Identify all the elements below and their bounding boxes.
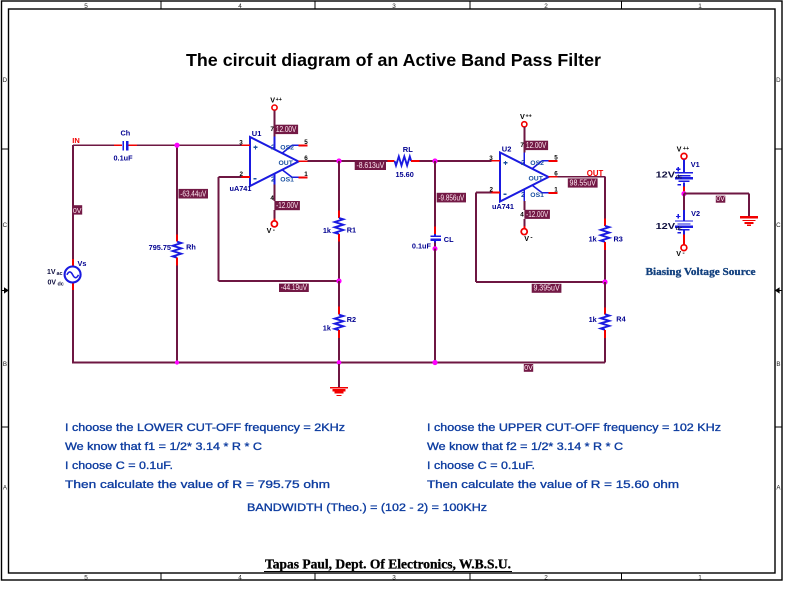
bias label -12.00V at U2 pin4 bbox=[524, 210, 550, 219]
op-amp U2 (second stage low-pass) bbox=[500, 153, 549, 202]
wire: bias mid node to ground bbox=[684, 193, 749, 216]
pin name OS1 of U2 bbox=[521, 190, 544, 199]
svg-text:V: V bbox=[677, 145, 682, 154]
pin 2 stub of U1 bbox=[239, 171, 250, 178]
pin 5 OS2 stub of U2 bbox=[532, 155, 558, 169]
svg-text:U1: U1 bbox=[252, 129, 262, 138]
svg-text:OS2: OS2 bbox=[280, 144, 294, 151]
svg-text:R1: R1 bbox=[347, 225, 356, 234]
svg-text:The circuit diagram of an Acti: The circuit diagram of an Active Band Pa… bbox=[186, 50, 601, 70]
svg-text:CL: CL bbox=[444, 235, 454, 244]
svg-text:++: ++ bbox=[276, 97, 282, 103]
svg-text:9.395uV: 9.395uV bbox=[533, 284, 560, 293]
svg-text:3: 3 bbox=[489, 155, 493, 162]
junction node CL/bottom rail bbox=[432, 360, 437, 365]
svg-text:4: 4 bbox=[238, 575, 242, 582]
svg-text:dc: dc bbox=[676, 174, 684, 180]
svg-text:I choose C = 0.1uF.: I choose C = 0.1uF. bbox=[65, 460, 173, 472]
svg-text:12V: 12V bbox=[656, 222, 676, 231]
capacitor Ch (0.1uF) bbox=[114, 141, 137, 151]
junction node R2/ground rail bbox=[337, 360, 342, 365]
junction node R3/R4/feedback bbox=[602, 279, 607, 284]
svg-text:We know that f2 = 1/2* 3.14 *: We know that f2 = 1/2* 3.14 * R * C bbox=[427, 441, 623, 453]
svg-text:V: V bbox=[524, 234, 529, 243]
svg-text:12V: 12V bbox=[656, 170, 676, 179]
svg-text:-63.44uV: -63.44uV bbox=[180, 189, 207, 198]
svg-text:V: V bbox=[676, 249, 681, 258]
svg-text:R3: R3 bbox=[614, 235, 623, 244]
pin 6 OUT stub of U1 bbox=[299, 155, 309, 162]
pin 1 OS1 stub of U1 bbox=[282, 170, 308, 178]
op-amp U1 (first stage high-pass) bbox=[250, 137, 299, 186]
svg-text:I choose the UPPER CUT-OFF fre: I choose the UPPER CUT-OFF frequency = 1… bbox=[427, 422, 721, 434]
svg-text:1V: 1V bbox=[47, 269, 56, 276]
wire: CL bottom to ground rail bbox=[434, 249, 436, 363]
pin name OS1 of U1 bbox=[271, 175, 294, 184]
svg-text:-: - bbox=[530, 235, 532, 242]
wire: U2 output to OUT node and down to R3 bbox=[558, 177, 606, 219]
svg-text:0.1uF: 0.1uF bbox=[114, 154, 134, 163]
svg-text:1k: 1k bbox=[323, 323, 332, 332]
svg-text:1: 1 bbox=[304, 171, 308, 178]
wire: left rail down from IN to Vs bbox=[72, 145, 74, 259]
svg-text:-12.00V: -12.00V bbox=[276, 201, 299, 210]
junction node RL/CL bbox=[432, 158, 437, 163]
svg-text:-44.19uV: -44.19uV bbox=[281, 283, 308, 292]
resistor R3 (1k) bbox=[601, 219, 610, 282]
pin 1 OS1 stub of U2 bbox=[532, 185, 558, 193]
svg-text:C: C bbox=[776, 222, 781, 229]
pin name OS2 of U2 bbox=[521, 158, 544, 167]
svg-text:3: 3 bbox=[239, 139, 243, 146]
resistor Rh (795.75) bbox=[173, 234, 182, 265]
wire: U1 inverting feedback net (pin2 left-down-right to R1/R2 node) bbox=[219, 177, 340, 281]
svg-text:R2: R2 bbox=[347, 315, 356, 324]
pin name OS2 of U1 bbox=[271, 143, 294, 152]
svg-text:-12.00V: -12.00V bbox=[526, 210, 549, 219]
svg-text:3: 3 bbox=[392, 575, 396, 582]
svg-text:1k: 1k bbox=[589, 235, 598, 244]
svg-text:2: 2 bbox=[544, 3, 548, 10]
svg-text:B: B bbox=[3, 361, 7, 368]
power terminal V- of U1 bbox=[267, 221, 278, 235]
svg-text:-9.856uV: -9.856uV bbox=[438, 193, 464, 202]
battery V2 (12Vdc) bbox=[675, 194, 693, 245]
svg-text:1: 1 bbox=[698, 575, 702, 582]
wire: vertical from input junction down to Rh bbox=[176, 145, 178, 234]
value label 12Vdc (V2) bbox=[656, 222, 684, 232]
bias label 98.55uV bbox=[568, 178, 598, 187]
svg-text:-8.613uV: -8.613uV bbox=[356, 161, 384, 170]
wire: left rail from Vs down to bottom rail bbox=[72, 290, 74, 363]
junction node between V1 and V2 bbox=[681, 191, 686, 196]
svg-text:Rh: Rh bbox=[186, 242, 196, 251]
battery V1 (12Vdc) bbox=[675, 160, 693, 192]
svg-text:-: - bbox=[273, 227, 275, 234]
svg-text:Biasing Voltage Source: Biasing Voltage Source bbox=[646, 267, 756, 278]
resistor R4 (1k) bbox=[601, 282, 610, 363]
svg-text:0V: 0V bbox=[524, 365, 533, 372]
svg-text:U2: U2 bbox=[502, 145, 512, 154]
svg-text:98.55uV: 98.55uV bbox=[570, 179, 597, 188]
svg-text:5: 5 bbox=[554, 155, 558, 162]
power terminal V++ of bias source bbox=[677, 145, 690, 160]
bias label -44.19uV bbox=[279, 283, 309, 292]
wire: top input rail from IN to U1 pin3 bbox=[73, 144, 244, 146]
source Vs (1Vac/0Vdc sine source) bbox=[65, 259, 81, 290]
svg-text:I choose C = 0.1uF.: I choose C = 0.1uF. bbox=[427, 460, 535, 472]
svg-text:V: V bbox=[267, 226, 272, 235]
power terminal V++ of U1 bbox=[270, 96, 282, 111]
bias label 0V on bottom rail bbox=[524, 364, 533, 372]
svg-text:D: D bbox=[776, 77, 781, 84]
svg-text:5: 5 bbox=[84, 575, 88, 582]
resistor R2 (1k) bbox=[335, 281, 344, 363]
resistor R1 (1k) bbox=[335, 161, 344, 281]
junction node at input/Rh bbox=[174, 143, 179, 148]
ground symbol 0 (main) bbox=[330, 364, 348, 396]
power terminal V++ of U2 bbox=[520, 112, 532, 127]
pin 4 of U1 with blue pin wire bbox=[270, 174, 274, 203]
power terminal V- of bias source bbox=[676, 245, 686, 258]
svg-text:1: 1 bbox=[698, 3, 702, 10]
bias label 0V on left rail bbox=[72, 205, 82, 215]
svg-text:Tapas Paul, Dept. Of Electroni: Tapas Paul, Dept. Of Electronics, W.B.S.… bbox=[265, 557, 511, 572]
pin 7 of U1 with blue pin wire bbox=[270, 126, 274, 149]
svg-text:OS1: OS1 bbox=[280, 176, 294, 183]
svg-text:OUT: OUT bbox=[529, 176, 544, 183]
svg-text:0V: 0V bbox=[716, 196, 725, 203]
bias label -8.613uV bbox=[355, 161, 386, 170]
wire: bottom 0V rail bbox=[73, 362, 605, 364]
svg-text:2: 2 bbox=[544, 575, 548, 582]
svg-text:Ch: Ch bbox=[121, 129, 131, 138]
svg-text:-: - bbox=[682, 250, 684, 257]
junction node Rh/bottom rail bbox=[175, 360, 179, 364]
bias label 9.395uV bbox=[532, 284, 562, 293]
resistor RL (15.60) horizontal bbox=[388, 157, 420, 166]
svg-text:5: 5 bbox=[84, 3, 88, 10]
bias label -63.44uV bbox=[179, 189, 209, 199]
svg-text:1k: 1k bbox=[323, 226, 332, 235]
svg-text:0V: 0V bbox=[48, 280, 57, 287]
svg-text:IN: IN bbox=[72, 136, 80, 145]
svg-text:OUT: OUT bbox=[279, 160, 294, 167]
svg-text:We know that f1 = 1/2* 3.14 *: We know that f1 = 1/2* 3.14 * R * C bbox=[65, 441, 262, 453]
svg-text:0.1uF: 0.1uF bbox=[412, 241, 432, 250]
power terminal V- of U2 bbox=[521, 229, 532, 243]
svg-text:I choose the LOWER CUT-OFF fre: I choose the LOWER CUT-OFF frequency = 2… bbox=[65, 422, 345, 434]
svg-text:++: ++ bbox=[683, 146, 689, 152]
svg-text:12.00V: 12.00V bbox=[276, 125, 297, 134]
value label 1Vac bbox=[47, 269, 63, 277]
pin 4 of U2 with blue pin wire bbox=[520, 190, 524, 219]
svg-text:BANDWIDTH (Theo.) = (102 - 2): BANDWIDTH (Theo.) = (102 - 2) = 100KHz bbox=[247, 502, 487, 514]
svg-text:dc: dc bbox=[58, 282, 64, 288]
svg-text:++: ++ bbox=[525, 114, 531, 120]
svg-text:1k: 1k bbox=[589, 315, 598, 324]
svg-text:V: V bbox=[520, 112, 525, 121]
svg-text:V: V bbox=[270, 96, 275, 105]
junction node R1/R2/feedback bbox=[336, 278, 341, 283]
pin 2 stub of U2 bbox=[489, 187, 500, 194]
svg-text:Then calculate the value of R: Then calculate the value of R = 795.75 o… bbox=[65, 479, 330, 491]
svg-text:1: 1 bbox=[554, 187, 558, 194]
svg-text:7: 7 bbox=[270, 126, 274, 133]
pin 7 of U2 with blue pin wire bbox=[520, 142, 524, 165]
svg-text:B: B bbox=[776, 361, 780, 368]
bias label -12.00V at U1 pin4 bbox=[274, 201, 300, 210]
bias label -9.856uV bbox=[437, 193, 466, 203]
pin 3 stub of U2 bbox=[489, 155, 500, 162]
svg-text:5: 5 bbox=[304, 139, 308, 146]
svg-text:7: 7 bbox=[520, 142, 524, 149]
capacitor CL (0.1uF) bbox=[430, 161, 441, 249]
value label 12Vdc (V1) bbox=[656, 170, 684, 180]
junction node U1out/R1 bbox=[336, 158, 341, 163]
svg-text:R4: R4 bbox=[616, 314, 626, 323]
svg-text:4: 4 bbox=[520, 211, 524, 218]
value label 0Vdc bbox=[48, 280, 64, 288]
junction node at CL bottom pin bbox=[433, 246, 438, 251]
svg-text:795.75: 795.75 bbox=[149, 243, 171, 252]
svg-text:V1: V1 bbox=[691, 160, 700, 169]
svg-text:3: 3 bbox=[392, 3, 396, 10]
wire: U2 pin4 to V- terminal bbox=[523, 219, 525, 229]
wire: Rh bottom to ground rail bbox=[176, 265, 178, 362]
svg-text:uA741: uA741 bbox=[492, 202, 514, 211]
svg-text:C: C bbox=[3, 222, 8, 229]
bias label 0V (bias source) bbox=[716, 196, 726, 203]
wire: U1 pin4 to V- terminal bbox=[274, 210, 276, 220]
svg-text:dc: dc bbox=[676, 226, 684, 232]
bias label 12.00V at U1 pin7 bbox=[274, 125, 298, 134]
wire: U1 output to RL bbox=[308, 160, 388, 162]
wire: RL to U2 pin3 bbox=[419, 160, 491, 162]
svg-text:OS2: OS2 bbox=[530, 160, 544, 167]
pin 5 OS2 stub of U1 bbox=[282, 139, 308, 153]
svg-text:V2: V2 bbox=[691, 209, 700, 218]
svg-text:ac: ac bbox=[57, 271, 63, 277]
svg-text:0V: 0V bbox=[73, 208, 82, 215]
svg-text:12.00V: 12.00V bbox=[526, 141, 547, 150]
svg-text:uA741: uA741 bbox=[230, 184, 252, 193]
wire: V++ to U2 pin7 bbox=[523, 127, 525, 152]
svg-text:15.60: 15.60 bbox=[396, 170, 414, 179]
svg-text:Vs: Vs bbox=[78, 259, 87, 268]
svg-text:OS1: OS1 bbox=[530, 192, 544, 199]
footer author text bbox=[264, 557, 512, 572]
bias label 12.00V at U2 pin7 bbox=[524, 141, 548, 150]
pin 3 stub of U1 bbox=[239, 139, 250, 146]
svg-text:4: 4 bbox=[270, 195, 274, 202]
pin 6 OUT stub of U2 bbox=[549, 171, 559, 178]
svg-text:RL: RL bbox=[403, 145, 413, 154]
wire: U2 inverting feedback net (pin2 left-down-right to R3/R4 node) bbox=[476, 192, 605, 282]
svg-text:D: D bbox=[3, 77, 8, 84]
svg-text:4: 4 bbox=[238, 3, 242, 10]
wire: V++ to U1 pin7 bbox=[274, 110, 276, 136]
svg-text:Then calculate the value of R: Then calculate the value of R = 15.60 oh… bbox=[427, 479, 679, 491]
ground symbol 0 (bias source) bbox=[740, 217, 758, 225]
